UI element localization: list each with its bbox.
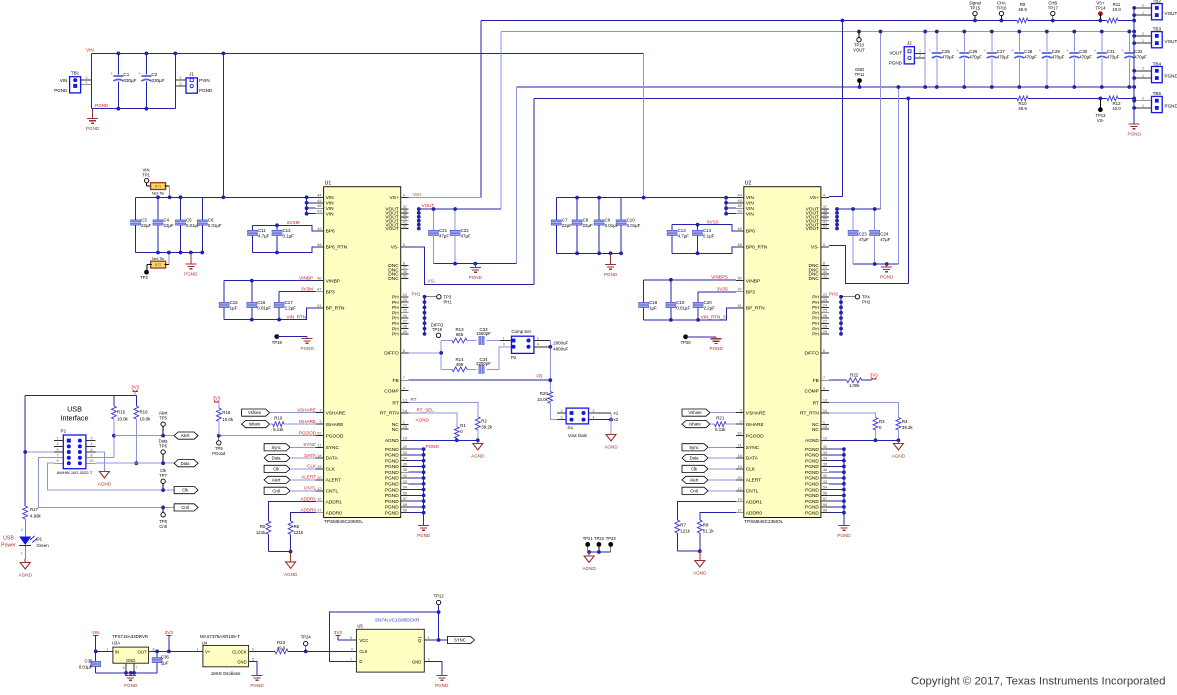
svg-text:SYNC: SYNC (454, 638, 466, 643)
svg-text:1: 1 (1142, 104, 1144, 108)
svg-text:6: 6 (403, 348, 405, 353)
svg-text:TP20: TP20 (681, 340, 692, 345)
svg-text:2000uF: 2000uF (553, 340, 568, 345)
svg-text:33: 33 (403, 450, 407, 455)
svg-text:AGND: AGND (805, 438, 819, 444)
svg-text:6: 6 (823, 348, 825, 353)
svg-text:FB: FB (537, 374, 543, 379)
svg-text:PGND: PGND (124, 683, 138, 688)
svg-text:AGND: AGND (471, 454, 485, 459)
svg-text:2: 2 (593, 409, 595, 413)
svg-text:10.0: 10.0 (1112, 106, 1121, 111)
svg-text:3: 3 (319, 408, 321, 413)
svg-text:Green: Green (37, 543, 50, 548)
svg-text:VIN_RTN: VIN_RTN (286, 314, 306, 319)
svg-text:PGND: PGND (469, 275, 483, 280)
svg-text:C7: C7 (562, 218, 568, 223)
svg-text:46: 46 (737, 203, 741, 208)
svg-text:C23: C23 (859, 232, 868, 237)
svg-text:C26: C26 (969, 49, 978, 54)
svg-text:TP21: TP21 (583, 536, 594, 541)
svg-text:2: 2 (21, 528, 23, 532)
svg-text:TP11: TP11 (855, 72, 865, 77)
svg-text:1500pF: 1500pF (476, 331, 491, 336)
svg-text:57: 57 (823, 496, 827, 501)
svg-text:PGND: PGND (837, 533, 851, 538)
svg-text:VSHARE: VSHARE (297, 407, 316, 412)
svg-text:3V3: 3V3 (131, 385, 139, 390)
svg-text:7: 7 (403, 375, 405, 380)
svg-text:VIN: VIN (746, 195, 755, 201)
svg-text:C2: C2 (151, 72, 157, 77)
svg-text:47µF: 47µF (859, 237, 869, 242)
svg-text:TB2: TB2 (1153, 0, 1162, 3)
svg-text:VOUT: VOUT (853, 47, 865, 52)
svg-text:PGOOD: PGOOD (746, 433, 764, 439)
svg-text:PGND: PGND (385, 453, 399, 459)
svg-text:15: 15 (823, 424, 827, 429)
svg-text:56: 56 (823, 490, 827, 495)
svg-text:VOUT: VOUT (889, 51, 902, 56)
svg-text:PGND: PGND (385, 487, 399, 493)
svg-text:R21: R21 (716, 415, 725, 420)
svg-text:PH2: PH2 (829, 291, 838, 296)
svg-text:R7: R7 (680, 523, 686, 528)
svg-text:IN: IN (115, 649, 119, 654)
svg-text:R18: R18 (222, 410, 231, 415)
svg-text:PVIN: PVIN (199, 78, 210, 83)
svg-text:C4: C4 (164, 218, 170, 223)
svg-text:C25: C25 (942, 49, 951, 54)
svg-text:36: 36 (823, 467, 827, 472)
svg-text:VIN: VIN (746, 206, 755, 212)
svg-text:TP19: TP19 (432, 327, 443, 332)
svg-text:C19: C19 (676, 300, 685, 305)
svg-text:Copyright © 2017, Texas Instru: Copyright © 2017, Texas Instruments Inco… (911, 676, 1165, 688)
svg-text:C20: C20 (704, 300, 713, 305)
svg-text:470µF: 470µF (942, 55, 955, 60)
svg-text:VS-: VS- (428, 279, 436, 284)
svg-text:PH: PH (812, 300, 819, 306)
svg-text:PGND: PGND (95, 103, 109, 108)
svg-text:NT2: NT2 (155, 263, 162, 267)
svg-text:62: 62 (737, 431, 741, 436)
svg-text:AWHW-10G-0202-T: AWHW-10G-0202-T (57, 470, 93, 475)
svg-text:2: 2 (1142, 67, 1144, 71)
svg-text:U2: U2 (745, 181, 752, 187)
svg-text:62: 62 (317, 431, 321, 436)
svg-text:x1: x1 (614, 411, 619, 416)
svg-text:C15: C15 (230, 300, 239, 305)
svg-text:PGND: PGND (385, 510, 399, 516)
svg-text:J1: J1 (189, 72, 194, 77)
svg-text:39.2k: 39.2k (481, 424, 493, 429)
svg-text:12: 12 (737, 486, 741, 491)
svg-text:FB: FB (393, 378, 399, 384)
svg-text:DNC: DNC (388, 276, 399, 282)
svg-text:PH: PH (812, 332, 819, 338)
svg-text:PGND: PGND (604, 272, 618, 277)
svg-text:PH: PH (812, 321, 819, 327)
svg-text:VIN: VIN (86, 48, 94, 53)
svg-text:VSHARE: VSHARE (326, 410, 346, 416)
svg-text:DATA: DATA (746, 456, 759, 462)
svg-text:NC: NC (392, 427, 399, 433)
svg-text:BP6_RTN: BP6_RTN (746, 245, 768, 251)
svg-text:PGND: PGND (1128, 132, 1142, 137)
svg-text:27: 27 (823, 318, 827, 323)
svg-text:TP22: TP22 (594, 536, 605, 541)
svg-text:R3: R3 (879, 419, 885, 424)
svg-text:56: 56 (403, 490, 407, 495)
svg-text:C1: C1 (123, 72, 129, 77)
svg-text:ALERT: ALERT (301, 475, 316, 480)
svg-text:36: 36 (403, 467, 407, 472)
svg-text:PGND: PGND (805, 470, 819, 476)
svg-text:52: 52 (403, 224, 407, 229)
svg-text:C31: C31 (1107, 49, 1116, 54)
svg-text:C22: C22 (461, 228, 470, 233)
svg-text:9: 9 (403, 386, 405, 391)
svg-text:0.01µF: 0.01µF (208, 223, 222, 228)
svg-text:V+: V+ (205, 649, 211, 654)
svg-text:PH: PH (812, 305, 819, 311)
svg-text:C24: C24 (880, 232, 889, 237)
svg-text:CLK: CLK (359, 649, 367, 654)
svg-text:CLK: CLK (326, 467, 336, 473)
svg-text:470µF: 470µF (1024, 55, 1037, 60)
svg-text:VIN: VIN (92, 630, 100, 635)
svg-text:Comp Sel: Comp Sel (511, 329, 530, 334)
svg-text:1µF: 1µF (161, 661, 169, 666)
svg-text:49.9: 49.9 (1018, 7, 1027, 12)
svg-text:12: 12 (317, 486, 321, 491)
svg-text:18: 18 (737, 453, 741, 458)
svg-text:PGND: PGND (805, 476, 819, 482)
svg-text:Clk: Clk (273, 467, 280, 472)
svg-text:Vshare: Vshare (688, 410, 702, 415)
svg-text:U3A: U3A (112, 641, 120, 646)
svg-text:C29: C29 (1052, 49, 1061, 54)
svg-text:FB: FB (813, 378, 819, 384)
svg-text:4: 4 (91, 442, 93, 446)
svg-text:x2: x2 (614, 417, 619, 422)
svg-text:3V3M: 3V3M (301, 287, 313, 292)
svg-text:TP17: TP17 (1048, 5, 1059, 10)
svg-text:Ishare: Ishare (689, 422, 701, 427)
svg-text:TB4: TB4 (1153, 61, 1162, 66)
svg-text:Vshare: Vshare (248, 410, 262, 415)
svg-text:470µF: 470µF (969, 55, 982, 60)
svg-text:22µF: 22µF (583, 223, 593, 228)
svg-text:Alert: Alert (690, 478, 699, 483)
svg-text:VS-: VS- (1097, 118, 1105, 123)
svg-text:AGND: AGND (385, 438, 399, 444)
svg-text:PH: PH (392, 300, 399, 306)
svg-text:PGND: PGND (805, 453, 819, 459)
svg-text:BP_RTN: BP_RTN (746, 306, 765, 312)
svg-text:58: 58 (403, 502, 407, 507)
svg-text:R15: R15 (117, 410, 126, 415)
svg-text:PGND: PGND (184, 272, 198, 277)
svg-text:PGND: PGND (805, 510, 819, 516)
svg-text:R20: R20 (540, 391, 549, 396)
svg-text:ADDR0: ADDR0 (326, 510, 343, 516)
svg-text:6: 6 (123, 666, 125, 670)
svg-text:R6: R6 (294, 524, 300, 529)
svg-text:C9: C9 (605, 218, 611, 223)
svg-text:ADDR1: ADDR1 (746, 499, 763, 505)
svg-text:45: 45 (317, 198, 321, 203)
svg-text:R16: R16 (140, 410, 149, 415)
svg-text:RT_RTN: RT_RTN (800, 411, 819, 417)
svg-text:RT: RT (813, 400, 819, 406)
svg-text:48: 48 (737, 242, 741, 247)
svg-text:121k: 121k (294, 530, 304, 535)
svg-text:3: 3 (428, 657, 430, 661)
svg-text:SYNC: SYNC (326, 445, 340, 451)
svg-text:Clk: Clk (182, 488, 189, 493)
svg-text:C12: C12 (283, 228, 292, 233)
svg-text:VSHARE: VSHARE (746, 410, 766, 416)
svg-text:VIN: VIN (746, 211, 755, 217)
svg-text:ALERT: ALERT (326, 478, 341, 484)
svg-text:4.7µF: 4.7µF (258, 234, 270, 239)
svg-text:VS+: VS+ (810, 195, 819, 201)
svg-text:R5: R5 (260, 524, 266, 529)
svg-text:PGND: PGND (385, 447, 399, 453)
svg-text:PGND: PGND (805, 464, 819, 470)
svg-text:PH: PH (392, 321, 399, 327)
svg-text:42: 42 (403, 473, 407, 478)
svg-text:PGND: PGND (250, 683, 264, 688)
svg-text:0.01µF: 0.01µF (79, 664, 93, 669)
svg-text:VIN: VIN (60, 78, 68, 83)
svg-text:4: 4 (537, 343, 539, 347)
svg-text:USB: USB (67, 405, 82, 414)
svg-text:PGND: PGND (880, 275, 894, 280)
svg-text:Clk: Clk (691, 467, 698, 472)
svg-text:Net-Tie: Net-Tie (152, 257, 164, 261)
svg-text:42: 42 (823, 473, 827, 478)
svg-text:BP3: BP3 (326, 289, 335, 295)
svg-text:470µF: 470µF (1079, 55, 1092, 60)
svg-text:PGND: PGND (199, 88, 213, 93)
svg-text:VOUT: VOUT (385, 226, 398, 232)
svg-text:P2: P2 (511, 355, 517, 360)
svg-text:10.0: 10.0 (1112, 7, 1121, 12)
svg-text:DATA: DATA (326, 456, 339, 462)
svg-text:RT_SEL: RT_SEL (417, 408, 435, 413)
svg-text:49.9: 49.9 (277, 646, 286, 651)
svg-text:C5: C5 (186, 218, 192, 223)
svg-text:C28: C28 (1024, 49, 1033, 54)
svg-text:PGND: PGND (805, 499, 819, 505)
svg-text:R17: R17 (30, 507, 39, 512)
svg-text:PGND: PGND (710, 346, 724, 351)
svg-text:C10: C10 (627, 218, 636, 223)
svg-text:Interface: Interface (61, 414, 89, 423)
svg-text:DNC: DNC (808, 276, 819, 282)
svg-text:U5: U5 (357, 623, 363, 628)
svg-text:PGND: PGND (301, 346, 315, 351)
svg-text:NC: NC (812, 427, 819, 433)
svg-text:35: 35 (823, 461, 827, 466)
svg-text:31: 31 (403, 273, 407, 278)
svg-text:18: 18 (317, 453, 321, 458)
svg-text:AGND: AGND (19, 573, 33, 578)
svg-text:VIN: VIN (326, 201, 335, 207)
svg-text:VOUT: VOUT (806, 226, 819, 232)
svg-text:10.0k: 10.0k (140, 416, 152, 421)
svg-text:2200pF: 2200pF (476, 361, 491, 366)
svg-text:53: 53 (317, 209, 321, 214)
svg-text:PH1: PH1 (444, 299, 453, 304)
svg-text:BP_RTN: BP_RTN (326, 306, 345, 312)
svg-text:CNTL: CNTL (326, 489, 339, 495)
svg-text:C6: C6 (208, 218, 214, 223)
svg-text:PGND: PGND (805, 481, 819, 487)
svg-text:3V3: 3V3 (165, 630, 174, 635)
svg-text:9: 9 (57, 459, 59, 463)
svg-text:Cntl: Cntl (181, 505, 189, 510)
svg-text:PH1: PH1 (412, 291, 421, 296)
svg-text:TPS715A33DRVR: TPS715A33DRVR (112, 634, 148, 639)
svg-text:DIFFO: DIFFO (805, 351, 820, 357)
svg-text:ADDR0: ADDR0 (746, 510, 763, 516)
svg-text:5: 5 (823, 242, 825, 247)
svg-text:499: 499 (456, 362, 464, 367)
svg-text:PGND: PGND (435, 683, 449, 688)
svg-text:OUT: OUT (138, 649, 147, 654)
svg-text:SYNC: SYNC (746, 445, 760, 451)
svg-text:PGND: PGND (805, 493, 819, 499)
svg-text:TP15: TP15 (970, 5, 981, 10)
svg-text:3V3S: 3V3S (717, 287, 728, 292)
svg-text:16: 16 (317, 497, 321, 502)
svg-text:23: 23 (823, 297, 827, 302)
svg-text:6: 6 (91, 448, 93, 452)
svg-text:22µF: 22µF (141, 223, 151, 228)
svg-text:4: 4 (428, 636, 430, 640)
svg-text:AGND: AGND (416, 417, 430, 422)
svg-text:PGND: PGND (889, 60, 903, 65)
svg-text:3V3: 3V3 (870, 372, 878, 377)
svg-text:470µF: 470µF (997, 55, 1010, 60)
svg-text:TP16: TP16 (996, 5, 1007, 10)
svg-text:PH: PH (392, 332, 399, 338)
svg-text:C18: C18 (649, 300, 658, 305)
svg-text:1: 1 (503, 336, 505, 340)
svg-text:VIN: VIN (326, 211, 335, 217)
svg-text:BP6_RTN: BP6_RTN (326, 245, 348, 251)
svg-text:P4: P4 (568, 426, 574, 431)
svg-text:330µF: 330µF (123, 78, 136, 83)
svg-text:PGood: PGood (212, 451, 226, 456)
svg-text:J2: J2 (907, 41, 912, 46)
svg-text:11: 11 (318, 442, 322, 447)
svg-text:7: 7 (136, 666, 138, 670)
svg-text:U4: U4 (202, 641, 208, 646)
svg-text:AGND: AGND (582, 566, 596, 571)
svg-text:TP24: TP24 (301, 635, 312, 640)
svg-text:49.9: 49.9 (1018, 106, 1027, 111)
svg-text:VOUT: VOUT (1165, 11, 1177, 16)
svg-text:PGND: PGND (805, 458, 819, 464)
svg-text:4.7µF: 4.7µF (678, 234, 690, 239)
svg-text:10.0k: 10.0k (537, 397, 549, 402)
svg-text:TB5: TB5 (1153, 91, 1162, 96)
svg-text:22: 22 (403, 292, 407, 297)
svg-text:1.00k: 1.00k (849, 383, 861, 388)
svg-text:ISHARE: ISHARE (326, 422, 344, 428)
svg-text:TB3: TB3 (1153, 26, 1162, 31)
svg-text:PH: PH (812, 326, 819, 332)
svg-text:470µF: 470µF (1107, 55, 1120, 60)
svg-text:29: 29 (403, 329, 407, 334)
svg-text:CLOCK: CLOCK (232, 649, 247, 654)
svg-text:USB: USB (3, 536, 14, 542)
svg-text:31: 31 (823, 273, 827, 278)
svg-text:1: 1 (180, 76, 182, 80)
svg-text:VS+: VS+ (389, 195, 398, 201)
svg-text:CNTL: CNTL (304, 486, 316, 491)
svg-text:TP1: TP1 (142, 173, 150, 178)
svg-text:VINBP: VINBP (326, 278, 340, 284)
svg-text:PH: PH (392, 295, 399, 301)
svg-text:29: 29 (823, 329, 827, 334)
svg-text:2: 2 (1142, 32, 1144, 36)
svg-text:R22: R22 (850, 373, 859, 378)
svg-text:330µF: 330µF (151, 78, 164, 83)
svg-text:R2: R2 (481, 419, 487, 424)
svg-text:PGND: PGND (1165, 74, 1177, 79)
svg-text:10.0k: 10.0k (117, 416, 129, 421)
svg-text:DATA: DATA (304, 453, 317, 458)
svg-text:C13: C13 (678, 228, 687, 233)
svg-text:PGND: PGND (426, 444, 440, 449)
svg-text:C11: C11 (258, 228, 266, 233)
svg-text:3V3: 3V3 (213, 395, 221, 400)
svg-text:RT: RT (411, 397, 417, 402)
svg-text:VS-: VS- (811, 245, 819, 251)
svg-text:VIN: VIN (746, 201, 755, 207)
svg-text:2.2µF: 2.2µF (704, 306, 716, 311)
svg-text:TB1: TB1 (71, 71, 80, 76)
svg-text:49: 49 (737, 226, 741, 231)
svg-text:PGND: PGND (805, 447, 819, 453)
svg-text:2: 2 (1142, 97, 1144, 101)
svg-text:SYNC: SYNC (303, 442, 316, 447)
svg-text:PGND: PGND (805, 487, 819, 493)
svg-text:0.01µF: 0.01µF (676, 306, 690, 311)
svg-text:C32: C32 (1134, 49, 1143, 54)
svg-text:PH: PH (392, 326, 399, 332)
svg-text:VOUT: VOUT (422, 203, 435, 208)
svg-text:C17: C17 (285, 300, 294, 305)
svg-text:2: 2 (537, 336, 539, 340)
svg-text:VS-: VS- (391, 245, 399, 251)
svg-text:PGND: PGND (385, 481, 399, 487)
svg-text:VCC: VCC (359, 638, 368, 643)
svg-text:2: 2 (252, 647, 254, 651)
svg-text:1: 1 (21, 552, 23, 556)
svg-text:6VSM: 6VSM (287, 220, 300, 225)
svg-text:5: 5 (57, 448, 59, 452)
svg-text:R19: R19 (274, 415, 283, 420)
svg-text:13: 13 (403, 398, 407, 403)
svg-text:CLK: CLK (307, 464, 317, 469)
